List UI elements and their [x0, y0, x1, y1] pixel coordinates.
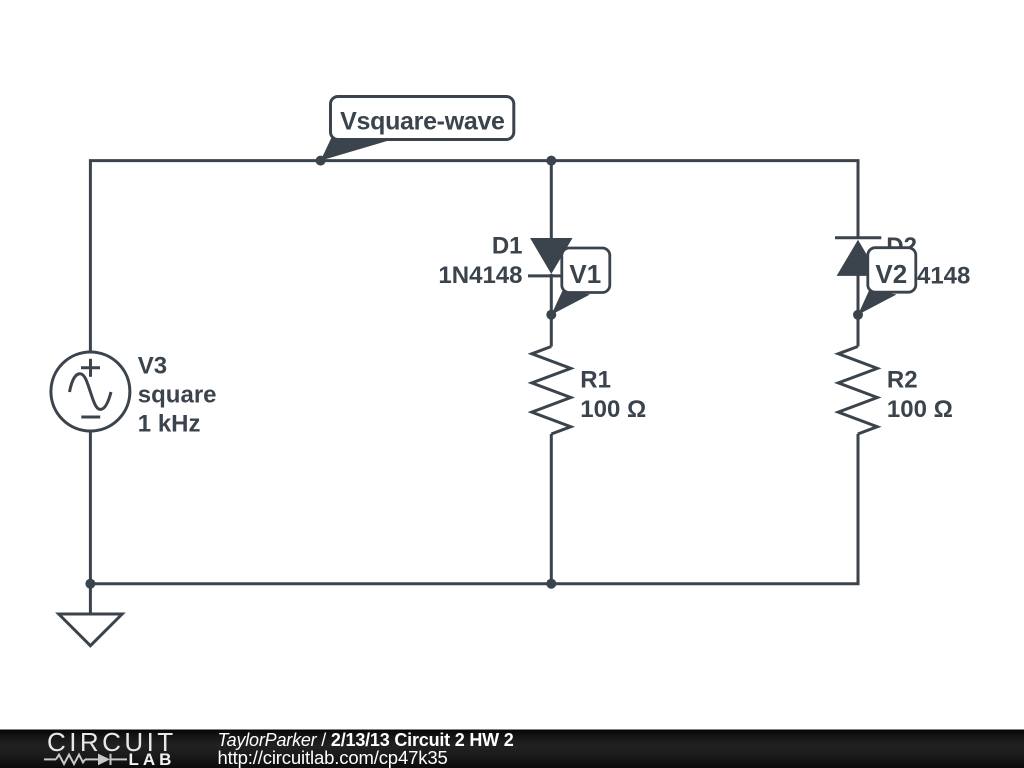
svg-text:R2: R2 [887, 366, 918, 393]
ground stub wire [89, 584, 92, 614]
svg-text:square: square [138, 382, 217, 409]
logo mini schematic: lead wire [44, 754, 127, 765]
diode D1 labels [438, 233, 522, 290]
footer black bar [0, 730, 1024, 768]
wire top net: V3 plus terminal up, across top, down to D2 cathode [90, 161, 858, 352]
node dot: flag attach on top net [316, 156, 326, 166]
node dot junction V3 bottom / ground net [85, 579, 95, 589]
voltage source V3 [51, 352, 130, 431]
svg-text:LAB: LAB [129, 750, 176, 768]
logo mini schematic: diode triangle [98, 754, 110, 766]
net flag Vsquare-wave tail [321, 138, 399, 161]
probe V1 box [562, 248, 610, 293]
svg-text:V3: V3 [138, 352, 167, 379]
svg-text:V1: V1 [569, 259, 601, 289]
V3 value labels [138, 352, 217, 437]
logo mini schematic: resistor zigzag [56, 755, 85, 764]
resistor R2 zigzag [838, 347, 877, 435]
svg-text:R1: R1 [580, 366, 611, 393]
diode D1 cathode bar [528, 274, 575, 277]
logo mini schematic: wire to diode [85, 758, 98, 760]
probe V1 tail [551, 290, 590, 315]
svg-text:100 Ω: 100 Ω [580, 396, 646, 423]
node dot junction R1 bottom / ground net [546, 579, 556, 589]
wire bottom net: V3 minus down, across bottom, up to R2 bottom [90, 431, 858, 584]
svg-text:1N4148: 1N4148 [438, 262, 522, 289]
wire D1 cathode to node V1 to R1 top [550, 274, 553, 347]
logo mini schematic: diode cathode bar [110, 754, 112, 765]
diode D2 labels [886, 233, 970, 289]
svg-text:D1: D1 [492, 233, 523, 260]
diode D2 triangle (anode, pointing up) [837, 240, 880, 276]
logo mini schematic: wire to LAB [111, 758, 127, 760]
wire R1 bottom to ground net [550, 434, 553, 584]
svg-text:1 kHz: 1 kHz [138, 411, 201, 438]
probe V2 tail [858, 290, 897, 315]
node dot under D1 (probe V1 attach) [546, 310, 556, 320]
probe V2 box [868, 248, 916, 293]
node dot: junction top net / D1 branch [546, 156, 556, 166]
ground symbol triangle [59, 614, 122, 646]
resistor R2 labels [887, 366, 953, 423]
resistor R1 zigzag [532, 347, 571, 435]
svg-text:Vsquare-wave: Vsquare-wave [340, 108, 505, 136]
node dot under D2 (probe V2 attach) [853, 310, 863, 320]
net flag Vsquare-wave box [331, 97, 514, 140]
diode D1 triangle (anode) [530, 238, 572, 274]
wire D1 anode from top net [550, 161, 553, 239]
resistor R1 labels [580, 366, 646, 423]
svg-text:100 Ω: 100 Ω [887, 396, 953, 423]
diode D2 cathode bar [835, 236, 881, 239]
wire D2 anode to node V2 to R2 top [857, 275, 860, 347]
svg-text:http://circuitlab.com/cp47k35: http://circuitlab.com/cp47k35 [218, 747, 448, 768]
svg-text:V2: V2 [875, 259, 907, 289]
